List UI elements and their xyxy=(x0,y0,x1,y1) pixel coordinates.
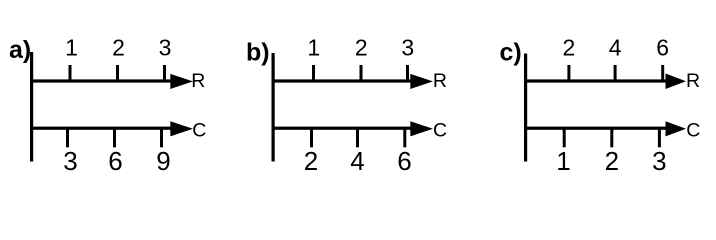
svg-text:3: 3 xyxy=(652,146,666,176)
svg-text:C: C xyxy=(192,120,206,142)
panel c bottom arrowhead xyxy=(666,121,687,136)
panel b bottom tick 2 xyxy=(356,128,359,147)
panel b top tick 2 xyxy=(360,65,363,81)
panel b bottom arrowhead xyxy=(410,121,433,136)
svg-text:b): b) xyxy=(246,39,270,67)
svg-text:2: 2 xyxy=(112,35,125,61)
svg-text:R: R xyxy=(191,70,205,92)
svg-text:3: 3 xyxy=(159,35,172,61)
svg-text:4: 4 xyxy=(350,146,364,176)
panel c top tick 1 xyxy=(567,65,570,81)
svg-text:R: R xyxy=(433,70,447,92)
svg-text:C: C xyxy=(433,120,447,142)
svg-text:a): a) xyxy=(9,36,31,64)
panel b top tick 3 xyxy=(406,65,409,81)
svg-text:c): c) xyxy=(500,39,522,67)
svg-text:2: 2 xyxy=(355,35,368,61)
svg-text:1: 1 xyxy=(556,146,570,176)
svg-text:6: 6 xyxy=(108,146,122,176)
panel a top tick 3 xyxy=(163,65,166,81)
panel b bottom tick 1 xyxy=(310,128,313,147)
svg-text:2: 2 xyxy=(304,146,318,176)
svg-text:2: 2 xyxy=(605,146,619,176)
svg-text:R: R xyxy=(686,70,700,92)
panel a top R-line wire xyxy=(30,79,186,82)
svg-text:3: 3 xyxy=(401,35,414,61)
svg-text:C: C xyxy=(686,120,700,142)
svg-text:9: 9 xyxy=(156,146,170,176)
panel c bottom tick 3 xyxy=(658,128,661,147)
panel c top tick 3 xyxy=(661,65,664,81)
panel c top arrowhead xyxy=(666,74,687,90)
svg-text:4: 4 xyxy=(609,35,622,61)
panel b vertical axis wire xyxy=(272,53,275,162)
panel b top R-line wire xyxy=(272,79,427,82)
svg-text:2: 2 xyxy=(563,35,576,61)
panel b bottom C-line wire xyxy=(272,127,427,130)
panel a bottom arrowhead xyxy=(170,121,193,136)
panel b top arrowhead xyxy=(410,74,433,89)
panel a bottom tick 1 xyxy=(66,128,69,147)
panel c bottom C-line wire xyxy=(524,127,680,130)
panel a top arrowhead xyxy=(170,74,193,89)
panel a vertical axis wire xyxy=(30,52,33,162)
panel c top R-line wire xyxy=(524,79,680,82)
svg-text:3: 3 xyxy=(63,146,77,176)
panel a top tick 2 xyxy=(116,65,119,81)
svg-text:6: 6 xyxy=(656,35,669,61)
panel a bottom C-line wire xyxy=(30,127,186,130)
svg-text:1: 1 xyxy=(307,35,320,61)
panel b top tick 1 xyxy=(312,65,315,81)
svg-text:1: 1 xyxy=(65,35,78,61)
panel b bottom tick 3 xyxy=(403,128,406,147)
svg-text:6: 6 xyxy=(397,146,411,176)
panel c top tick 2 xyxy=(614,65,617,81)
panel c vertical axis wire xyxy=(524,54,527,162)
panel a top tick 1 xyxy=(69,65,72,81)
panel c bottom tick 2 xyxy=(610,128,613,147)
panel c bottom tick 1 xyxy=(563,128,566,147)
panel a bottom tick 3 xyxy=(160,128,163,147)
panel a bottom tick 2 xyxy=(113,128,116,147)
